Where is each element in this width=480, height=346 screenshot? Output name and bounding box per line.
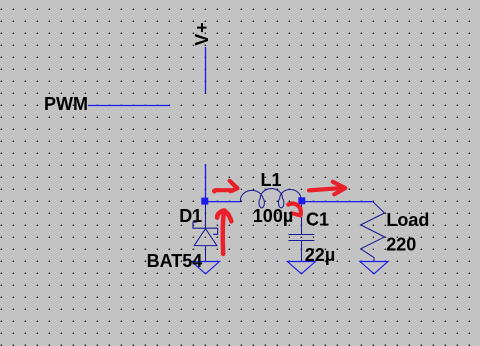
red arrow current into inductor [214, 190, 233, 191]
wire vertical mid segment to node A [205, 164, 207, 199]
svg-text:220: 220 [386, 234, 416, 254]
wire PWM horizontal [88, 105, 170, 107]
svg-text:Load: Load [386, 210, 429, 230]
ground under capacitor [287, 262, 315, 274]
capacitor C1 bottom plate [288, 240, 314, 242]
diode D1 anode triangle [194, 229, 217, 246]
wire V+ vertical top segment [205, 47, 207, 93]
diode D1 schottky cathode bar [193, 222, 218, 234]
ground under diode [192, 262, 220, 274]
svg-text:22µ: 22µ [305, 245, 335, 265]
capacitor C1 top plate [288, 234, 314, 236]
capacitor C1 bottom lead [301, 241, 303, 262]
svg-text:BAT54: BAT54 [147, 251, 203, 271]
svg-text:C1: C1 [306, 210, 329, 230]
diode D1 bottom lead [205, 246, 207, 262]
capacitor C1 top lead [301, 205, 303, 235]
resistor Load zigzag [361, 202, 385, 262]
red arrow down into capacitor [288, 204, 301, 216]
red arrow up through diode [223, 212, 224, 254]
red arrow to load [309, 188, 340, 190]
svg-text:V+: V+ [192, 22, 212, 46]
node B junction square [298, 197, 305, 204]
inductor L1 coil [240, 189, 301, 208]
wire node B to load [302, 201, 373, 203]
diode D1 top lead [205, 205, 207, 229]
ground under load [360, 262, 388, 274]
svg-text:100µ: 100µ [253, 206, 293, 226]
svg-text:L1: L1 [261, 170, 282, 190]
svg-text:D1: D1 [179, 206, 202, 226]
node A junction square [201, 198, 208, 205]
svg-text:PWM: PWM [44, 94, 88, 114]
wire node A to inductor [205, 201, 241, 203]
